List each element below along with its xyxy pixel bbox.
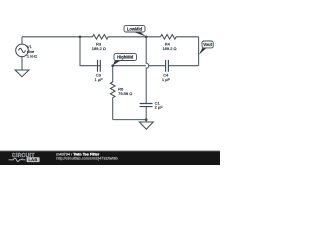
ground bottom: [139, 122, 153, 129]
wire right rail down: [198, 37, 200, 66]
junction dot at C3 branch: [79, 35, 82, 38]
wire top rail right: R4 to corner: [176, 36, 198, 38]
wire V1 top stub: [21, 37, 23, 44]
label R3: [92, 41, 106, 51]
wire mid rail right: corner to C4: [169, 65, 199, 67]
svg-text:LAB: LAB: [28, 157, 37, 162]
voltage source V1: [16, 44, 29, 57]
svg-text:1 µF: 1 µF: [162, 77, 171, 82]
node flag HighMid: [113, 54, 137, 66]
svg-text:1 kHz: 1 kHz: [27, 54, 37, 59]
label V1: [27, 44, 37, 58]
junction dot bottom: [145, 118, 148, 121]
wire C3 branch corner: [80, 37, 97, 66]
capacitor C1 (vertical): [140, 104, 153, 107]
ground under V1: [15, 70, 29, 77]
svg-text:2 µF: 2 µF: [155, 104, 164, 109]
wire top rail left: V1 to R3: [22, 36, 93, 38]
node flag Vout: [199, 41, 213, 55]
wire top rail mid: R3 to R4: [108, 36, 160, 38]
resistor R6 (vertical): [110, 82, 115, 98]
svg-text:Vout: Vout: [203, 42, 212, 47]
svg-text:LowMid: LowMid: [127, 26, 143, 31]
wire ground2 stub: [145, 120, 147, 122]
wire R6 top stub: [112, 66, 114, 82]
svg-text:1 µF: 1 µF: [95, 77, 104, 82]
svg-text:189.2 Ω: 189.2 Ω: [92, 46, 106, 51]
footer bar: [0, 151, 220, 165]
label C3: [95, 72, 104, 82]
label R4: [162, 41, 176, 51]
node flag LowMid: [124, 26, 146, 37]
footer CircuitLab logo: [9, 153, 40, 162]
junction dot at HighMid: [111, 64, 114, 67]
svg-text:HighMid: HighMid: [117, 55, 134, 60]
wire bottom rail: [113, 119, 147, 121]
wire R6 bottom stub: [112, 98, 114, 120]
svg-text:http://circuitlab.com/c/mbj473: http://circuitlab.com/c/mbj4732/twt8b: [56, 157, 117, 161]
wire C1 bottom stub: [145, 107, 147, 120]
label C1: [155, 100, 164, 109]
junction dot at LowMid: [145, 35, 148, 38]
capacitor C3: [98, 60, 101, 72]
capacitor C4: [166, 60, 169, 72]
resistor R3: [93, 35, 109, 40]
wire LowMid drop with hop over mid rail: [146, 37, 149, 103]
wire mid rail left: HighMid node to C3: [97, 65, 101, 67]
resistor R4: [161, 35, 177, 40]
label C4: [162, 72, 171, 82]
svg-text:189.2 Ω: 189.2 Ω: [162, 46, 176, 51]
wire mid rail center: C4 to HighMid node: [113, 65, 165, 67]
label R6: [118, 87, 132, 96]
svg-text:79.58 Ω: 79.58 Ω: [118, 91, 132, 96]
wire V1 bottom stub: [21, 57, 23, 70]
